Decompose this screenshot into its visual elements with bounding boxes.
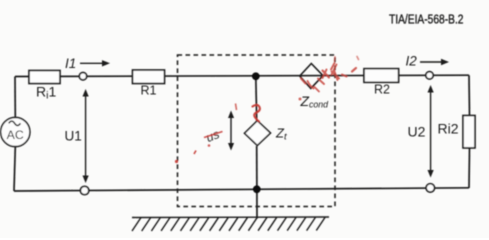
arrow I1 [80, 60, 110, 66]
red annotation: strike through us [204, 132, 223, 138]
junction bottom (filled dot) [253, 185, 261, 193]
wire bottom horizontal [14, 188, 469, 191]
svg-text:R2: R2 [374, 83, 390, 97]
AC sine symbol [9, 121, 21, 125]
svg-text:I1: I1 [65, 56, 76, 71]
node bottom-left (open circle) [80, 186, 88, 194]
red annotation: speck near us [236, 104, 237, 111]
impedance Zcond (diamond on top wire) [300, 64, 323, 89]
arrow I2 [420, 59, 449, 65]
svg-text:U2: U2 [408, 124, 426, 140]
red annotation: speck left of Zcond label [299, 98, 302, 101]
resistor R1 [133, 70, 165, 84]
node A (top left, open circle) [79, 73, 86, 80]
node top-right (open circle) [426, 72, 433, 79]
impedance Zt (diamond) [245, 121, 271, 146]
svg-text:Ri2: Ri2 [438, 121, 459, 137]
red annotation: speck below us [208, 144, 211, 147]
ground [132, 217, 329, 231]
svg-text:Zcond: Zcond [300, 94, 330, 110]
svg-text:TIA/EIA-568-B.2: TIA/EIA-568-B.2 [389, 12, 464, 27]
resistor Ri1 [29, 71, 60, 84]
svg-text:Ri1: Ri1 [36, 84, 56, 102]
red annotation: squiggle above Zt [253, 105, 260, 122]
resistor R2 [364, 69, 399, 83]
voltage arrow U1 (double headed) [83, 89, 89, 183]
wire right vertical [468, 75, 471, 116]
svg-text:U1: U1 [65, 129, 82, 144]
red annotation: cross marks over Zcond [301, 57, 359, 92]
voltage arrow U2 (double headed) [428, 85, 434, 178]
svg-text:AC: AC [7, 128, 24, 142]
wire left vertical [14, 77, 16, 119]
red annotation: small dash [194, 151, 196, 155]
AC source circle [1, 117, 30, 146]
resistor Ri2 [463, 116, 475, 148]
red annotation: dot on dashed edge [175, 160, 178, 163]
wire center vertical (node to Zt to ground) [255, 76, 258, 121]
svg-text:Zt: Zt [275, 126, 287, 143]
node bottom-right (open circle) [426, 184, 434, 192]
voltage arrow (double headed, near Zt) [228, 111, 234, 151]
red annotation: handwritten us label [204, 127, 221, 145]
svg-text:R1: R1 [141, 84, 157, 98]
svg-text:I2: I2 [406, 54, 418, 69]
junction top (filled dot) [252, 72, 260, 80]
dashed boundary box [178, 55, 336, 207]
wire top horizontal [15, 75, 469, 76]
